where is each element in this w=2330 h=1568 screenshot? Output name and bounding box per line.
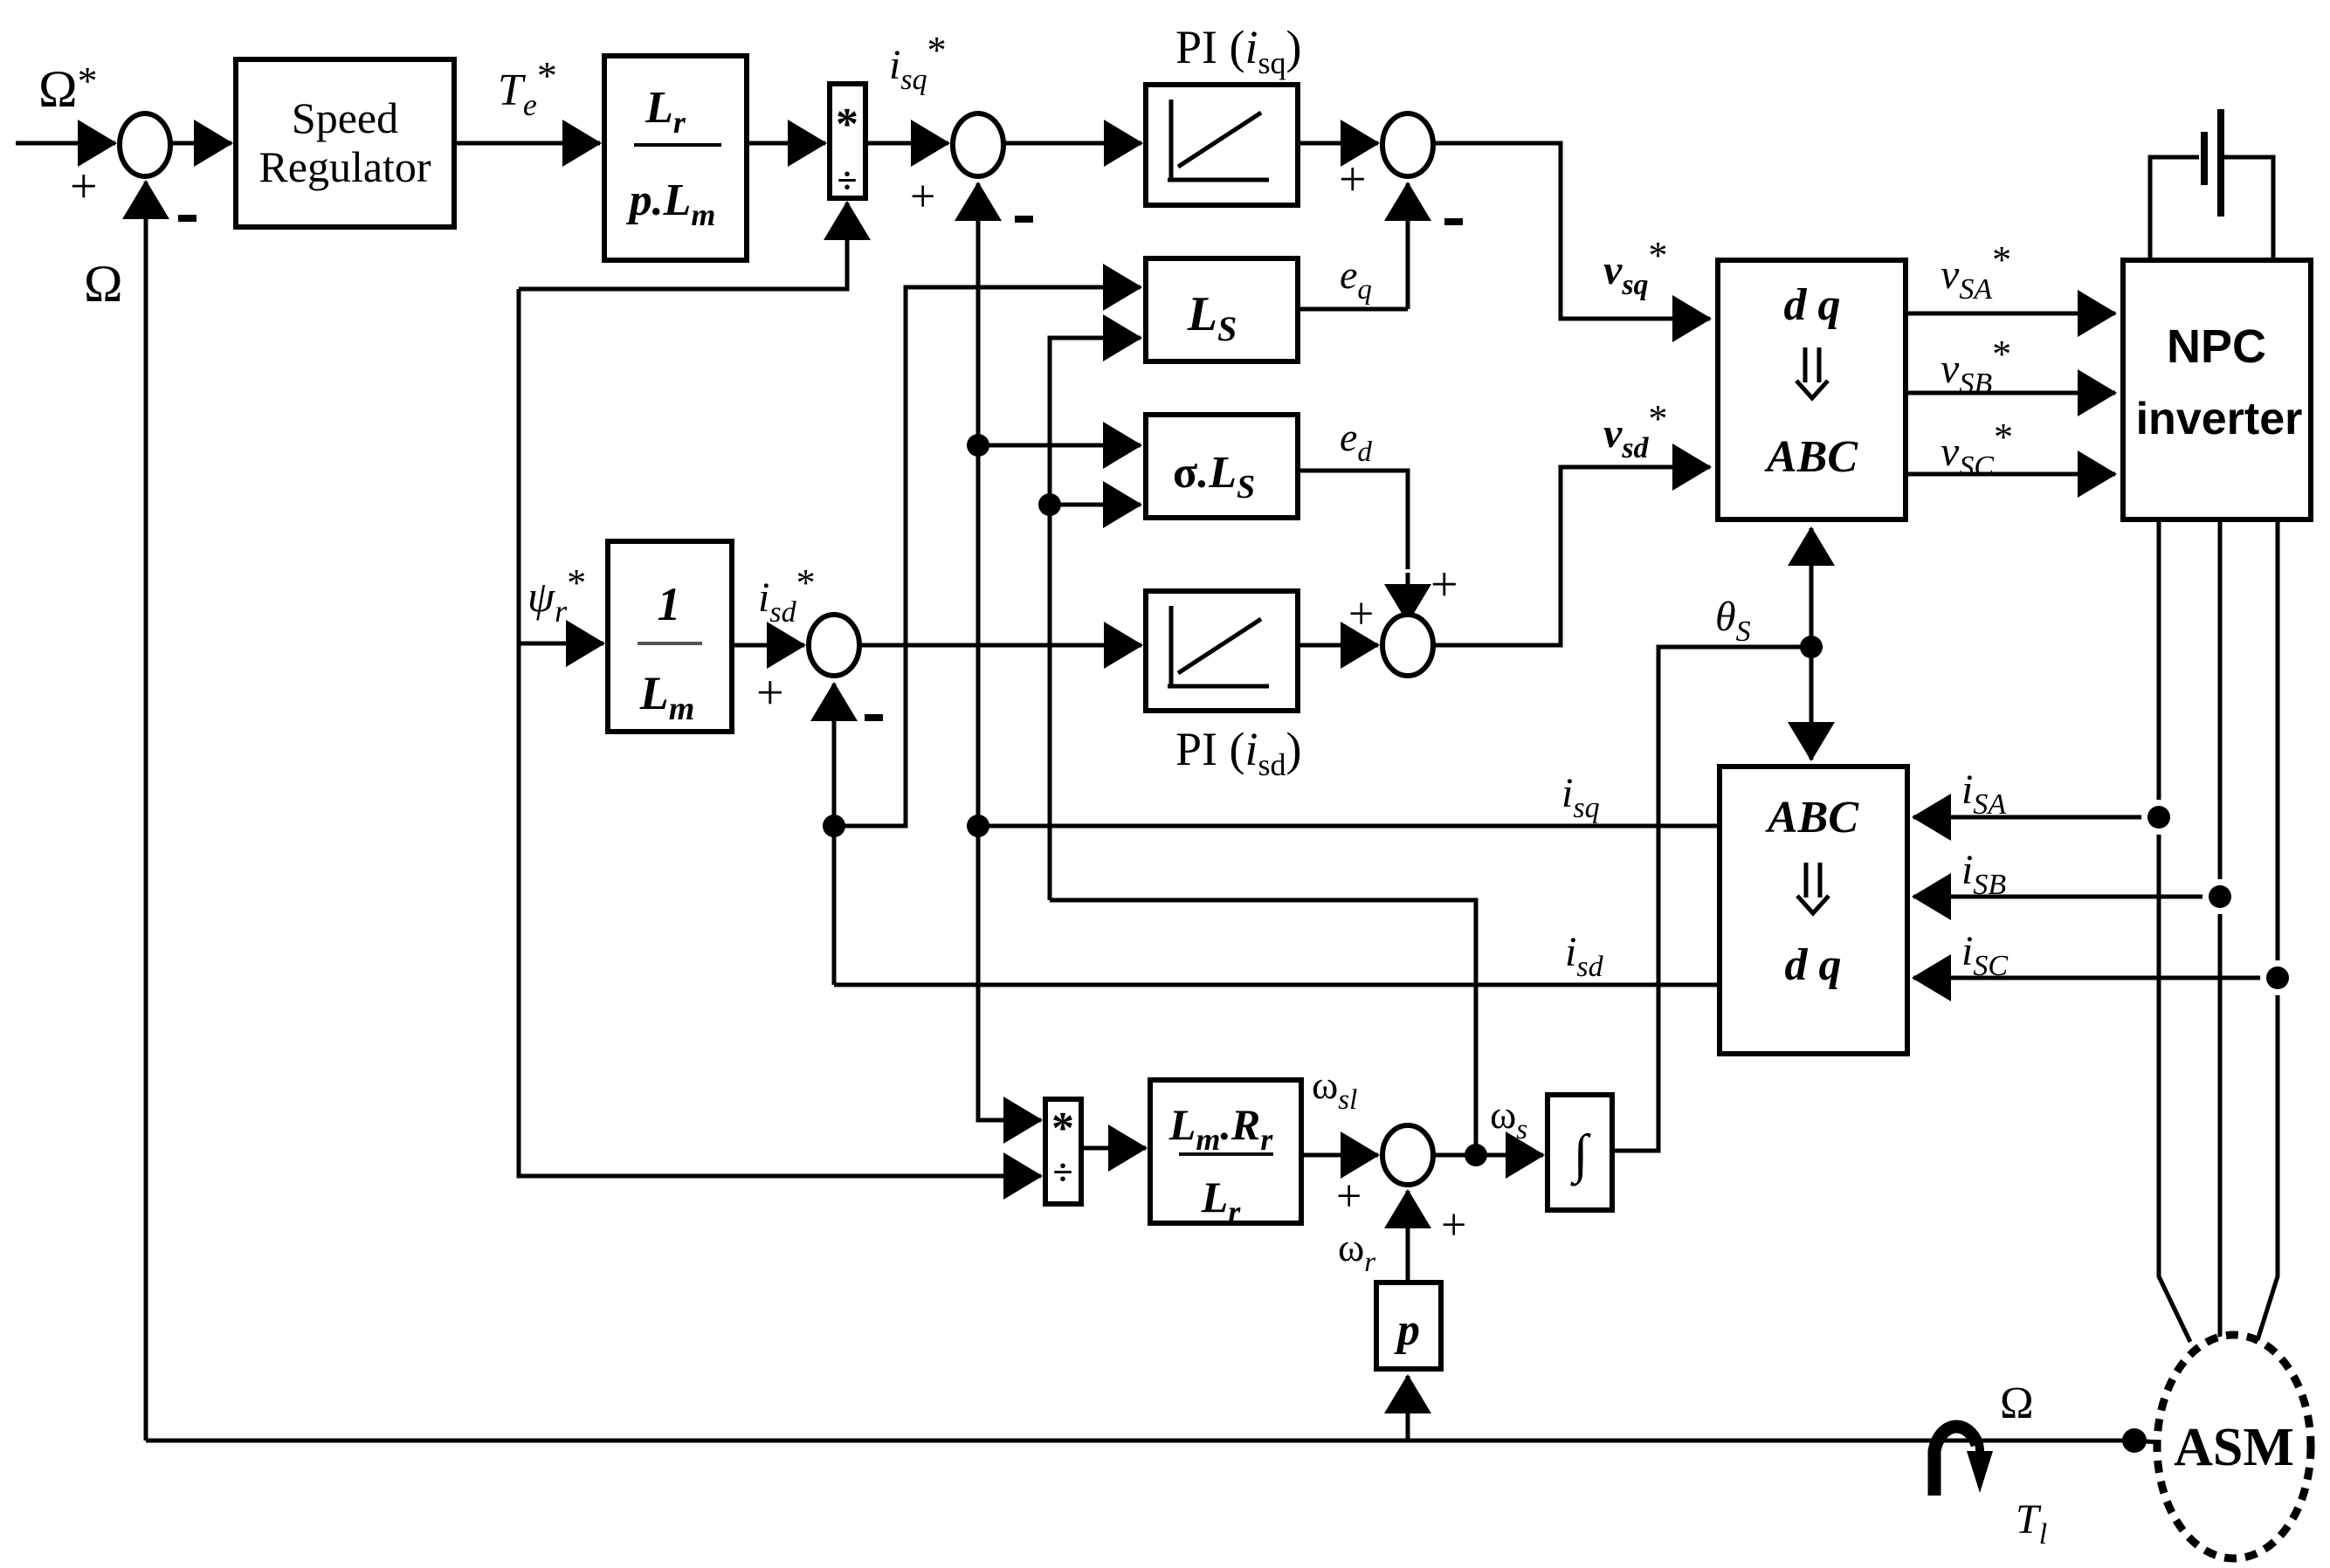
summing junction S4	[809, 615, 859, 676]
summing junction S1	[120, 113, 170, 176]
wire omega-s riser to Ls lower input	[1050, 338, 1137, 900]
svg-text:1: 1	[658, 578, 681, 630]
wire iSB current into ABC-dq	[1956, 895, 2220, 899]
wire isq riser from S2 down to M2 multiply input	[978, 224, 1039, 1120]
svg-text:NPC: NPC	[2167, 320, 2266, 373]
wire S1 to Speed Regulator	[170, 141, 231, 146]
wire isd feedback from ABC-dq to S4 riser	[834, 983, 1720, 987]
svg-text:÷: ÷	[1052, 1153, 1072, 1193]
junction dot omega-s on x1202 riser	[1038, 493, 1061, 516]
wire PI(isd) to summing junction S5	[1298, 643, 1378, 648]
wire omega feedback riser into S1 (minus input)	[144, 220, 148, 1441]
junction dot iSA tap	[2141, 800, 2176, 835]
block PI regulator isd	[1146, 591, 1298, 711]
wire phase C from NPC to ASM	[2258, 519, 2278, 1340]
junction dot iSC tap	[2260, 960, 2295, 995]
wire iSC current into ABC-dq	[1956, 976, 2278, 980]
block multiplier-divider M1	[830, 84, 865, 198]
svg-text:ABC: ABC	[1765, 793, 1859, 842]
wire flux line into M1 divide input	[519, 243, 847, 289]
block multiplier-divider M2	[1045, 1099, 1081, 1204]
battery DC source	[2201, 132, 2208, 185]
svg-text:d q: d q	[1785, 940, 1842, 990]
wire eq arrow into S3 minus input	[1406, 229, 1410, 309]
wire Speed Regulator to Lr/pLm	[454, 141, 600, 146]
junction dot theta-s tee	[1800, 636, 1823, 658]
svg-text:Speed: Speed	[292, 93, 398, 142]
wire flux riser down to M2 divide input	[519, 289, 1039, 1176]
svg-text:Lm.Rr: Lm.Rr	[1168, 1100, 1273, 1157]
svg-text:+: +	[1339, 153, 1367, 207]
wire S3 output routed to vsq-star input of dq-ABC	[1433, 143, 1710, 319]
block Speed Regulator	[236, 59, 454, 227]
wire isq feedback from ABC-dq to isq riser	[978, 824, 1720, 829]
wire isd branch riser to Ls upper input	[834, 287, 1137, 826]
node minus sign at S4	[865, 714, 883, 721]
summing junction S5	[1382, 615, 1433, 676]
wire M1 to summing junction S2	[865, 141, 948, 146]
wire S2 to PI(isq)	[1003, 141, 1141, 146]
wire DC link left leg	[2150, 157, 2199, 260]
svg-text:inverter: inverter	[2136, 394, 2303, 444]
wire theta-s vertical link with up arrow into dq-ABC	[1810, 567, 1814, 647]
wire dot to ASM body	[2134, 1441, 2159, 1442]
block NPC inverter	[2123, 260, 2311, 519]
block dq to ABC transform	[1718, 260, 1906, 519]
summing junction S6	[1382, 1125, 1433, 1185]
wire S6 output to integrator	[1433, 1153, 1485, 1158]
svg-text:+: +	[70, 160, 98, 214]
wire vSA-star dq-ABC to NPC	[1906, 312, 2115, 316]
block PI regulator isq	[1146, 85, 1298, 205]
node rotation arrow symbol	[1934, 1427, 1977, 1496]
svg-text:d q: d q	[1784, 280, 1841, 330]
wire PI(isq) to summing junction S3	[1298, 141, 1378, 146]
svg-text:+: +	[910, 172, 935, 222]
wire p block arrow into S6 plus input	[1406, 1234, 1410, 1283]
wire Lr/pLm to multiplier M1	[747, 141, 825, 146]
junction dot at ASM shaft	[2122, 1428, 2147, 1453]
junction dot isd branch	[823, 815, 845, 837]
wire vSC-star dq-ABC to NPC	[1906, 472, 2115, 477]
node minus sign at S3	[1444, 218, 1463, 225]
block p pole pairs	[1376, 1283, 1441, 1369]
svg-text:+: +	[756, 666, 784, 720]
wire DC link right leg	[2223, 157, 2273, 260]
wire psi-r-star input into 1/Lm	[519, 642, 603, 646]
svg-text:Ω: Ω	[2000, 1379, 2034, 1428]
svg-text:+: +	[1441, 1200, 1466, 1250]
wire ed from sigma.Ls routed down into S5 plus input	[1298, 471, 1408, 569]
svg-text:Ω: Ω	[84, 255, 123, 313]
svg-text:ASM: ASM	[2174, 1418, 2294, 1477]
wire phase B from NPC to ASM	[2218, 519, 2223, 1338]
summing junction S2	[953, 113, 1003, 176]
wire 1/Lm to summing junction S4	[732, 643, 804, 648]
svg-text:÷: ÷	[837, 162, 857, 202]
node minus sign at S1	[178, 215, 196, 222]
wire phase A from NPC to ASM	[2159, 519, 2190, 1342]
svg-text:+: +	[1348, 589, 1374, 639]
svg-text:p: p	[1394, 1305, 1420, 1355]
wire input to summing junction S1	[16, 141, 115, 146]
summing junction S3	[1382, 113, 1433, 176]
wire omega-s horizontal run to sigma-Ls lower input	[1050, 505, 1476, 1155]
block Ls	[1146, 258, 1298, 361]
block Lm.Rr over Lr	[1150, 1080, 1301, 1223]
wire vSB-star dq-ABC to NPC	[1906, 391, 2115, 395]
wire theta-s from integrator up and right to transform blocks	[1612, 647, 1811, 1151]
machine ASM	[2157, 1335, 2311, 1558]
svg-text:+: +	[1336, 1172, 1361, 1221]
svg-text:+: +	[1430, 558, 1458, 612]
wire Lm.Rr/Lr to summing junction S6	[1301, 1153, 1378, 1158]
block sigma.Ls	[1146, 415, 1298, 518]
svg-text:Regulator: Regulator	[259, 142, 431, 191]
block Lr/p.Lm	[604, 56, 747, 260]
junction dot isq feedback joins riser	[967, 815, 989, 837]
wire iSA current into ABC-dq	[1956, 815, 2155, 820]
wire isq riser arrow into S2 minus input	[976, 183, 981, 229]
svg-text:ABC: ABC	[1764, 432, 1858, 482]
wire isq branch to sigma-Ls upper input	[978, 444, 1137, 448]
block ABC to dq transform	[1720, 767, 1907, 1054]
block integrator	[1548, 1095, 1612, 1210]
wire M2 to Lm.Rr/Lr	[1081, 1146, 1146, 1151]
wire Omega speed feedback from ASM to S1	[146, 1439, 2134, 1443]
svg-text:*: *	[1051, 1104, 1074, 1153]
wire eq from Ls to S3	[1298, 307, 1408, 312]
wire theta-s vertical link with down arrow into ABC-dq	[1810, 647, 1814, 720]
wire S5 output routed to vsd-star input of dq-ABC	[1433, 467, 1710, 645]
wire isd riser arrow into S4 minus input	[832, 726, 837, 985]
wire S4 to PI(isd)	[859, 643, 1087, 648]
junction dot isq to sigma-Ls branch	[967, 434, 989, 457]
junction dot omega-s branch	[1465, 1144, 1487, 1166]
svg-text:*: *	[836, 100, 858, 149]
wire speed tap arrow into p	[1406, 1416, 1410, 1441]
node minus sign at S2	[1015, 216, 1033, 223]
block 1/Lm	[608, 541, 732, 732]
junction dot iSB tap	[2202, 879, 2237, 914]
